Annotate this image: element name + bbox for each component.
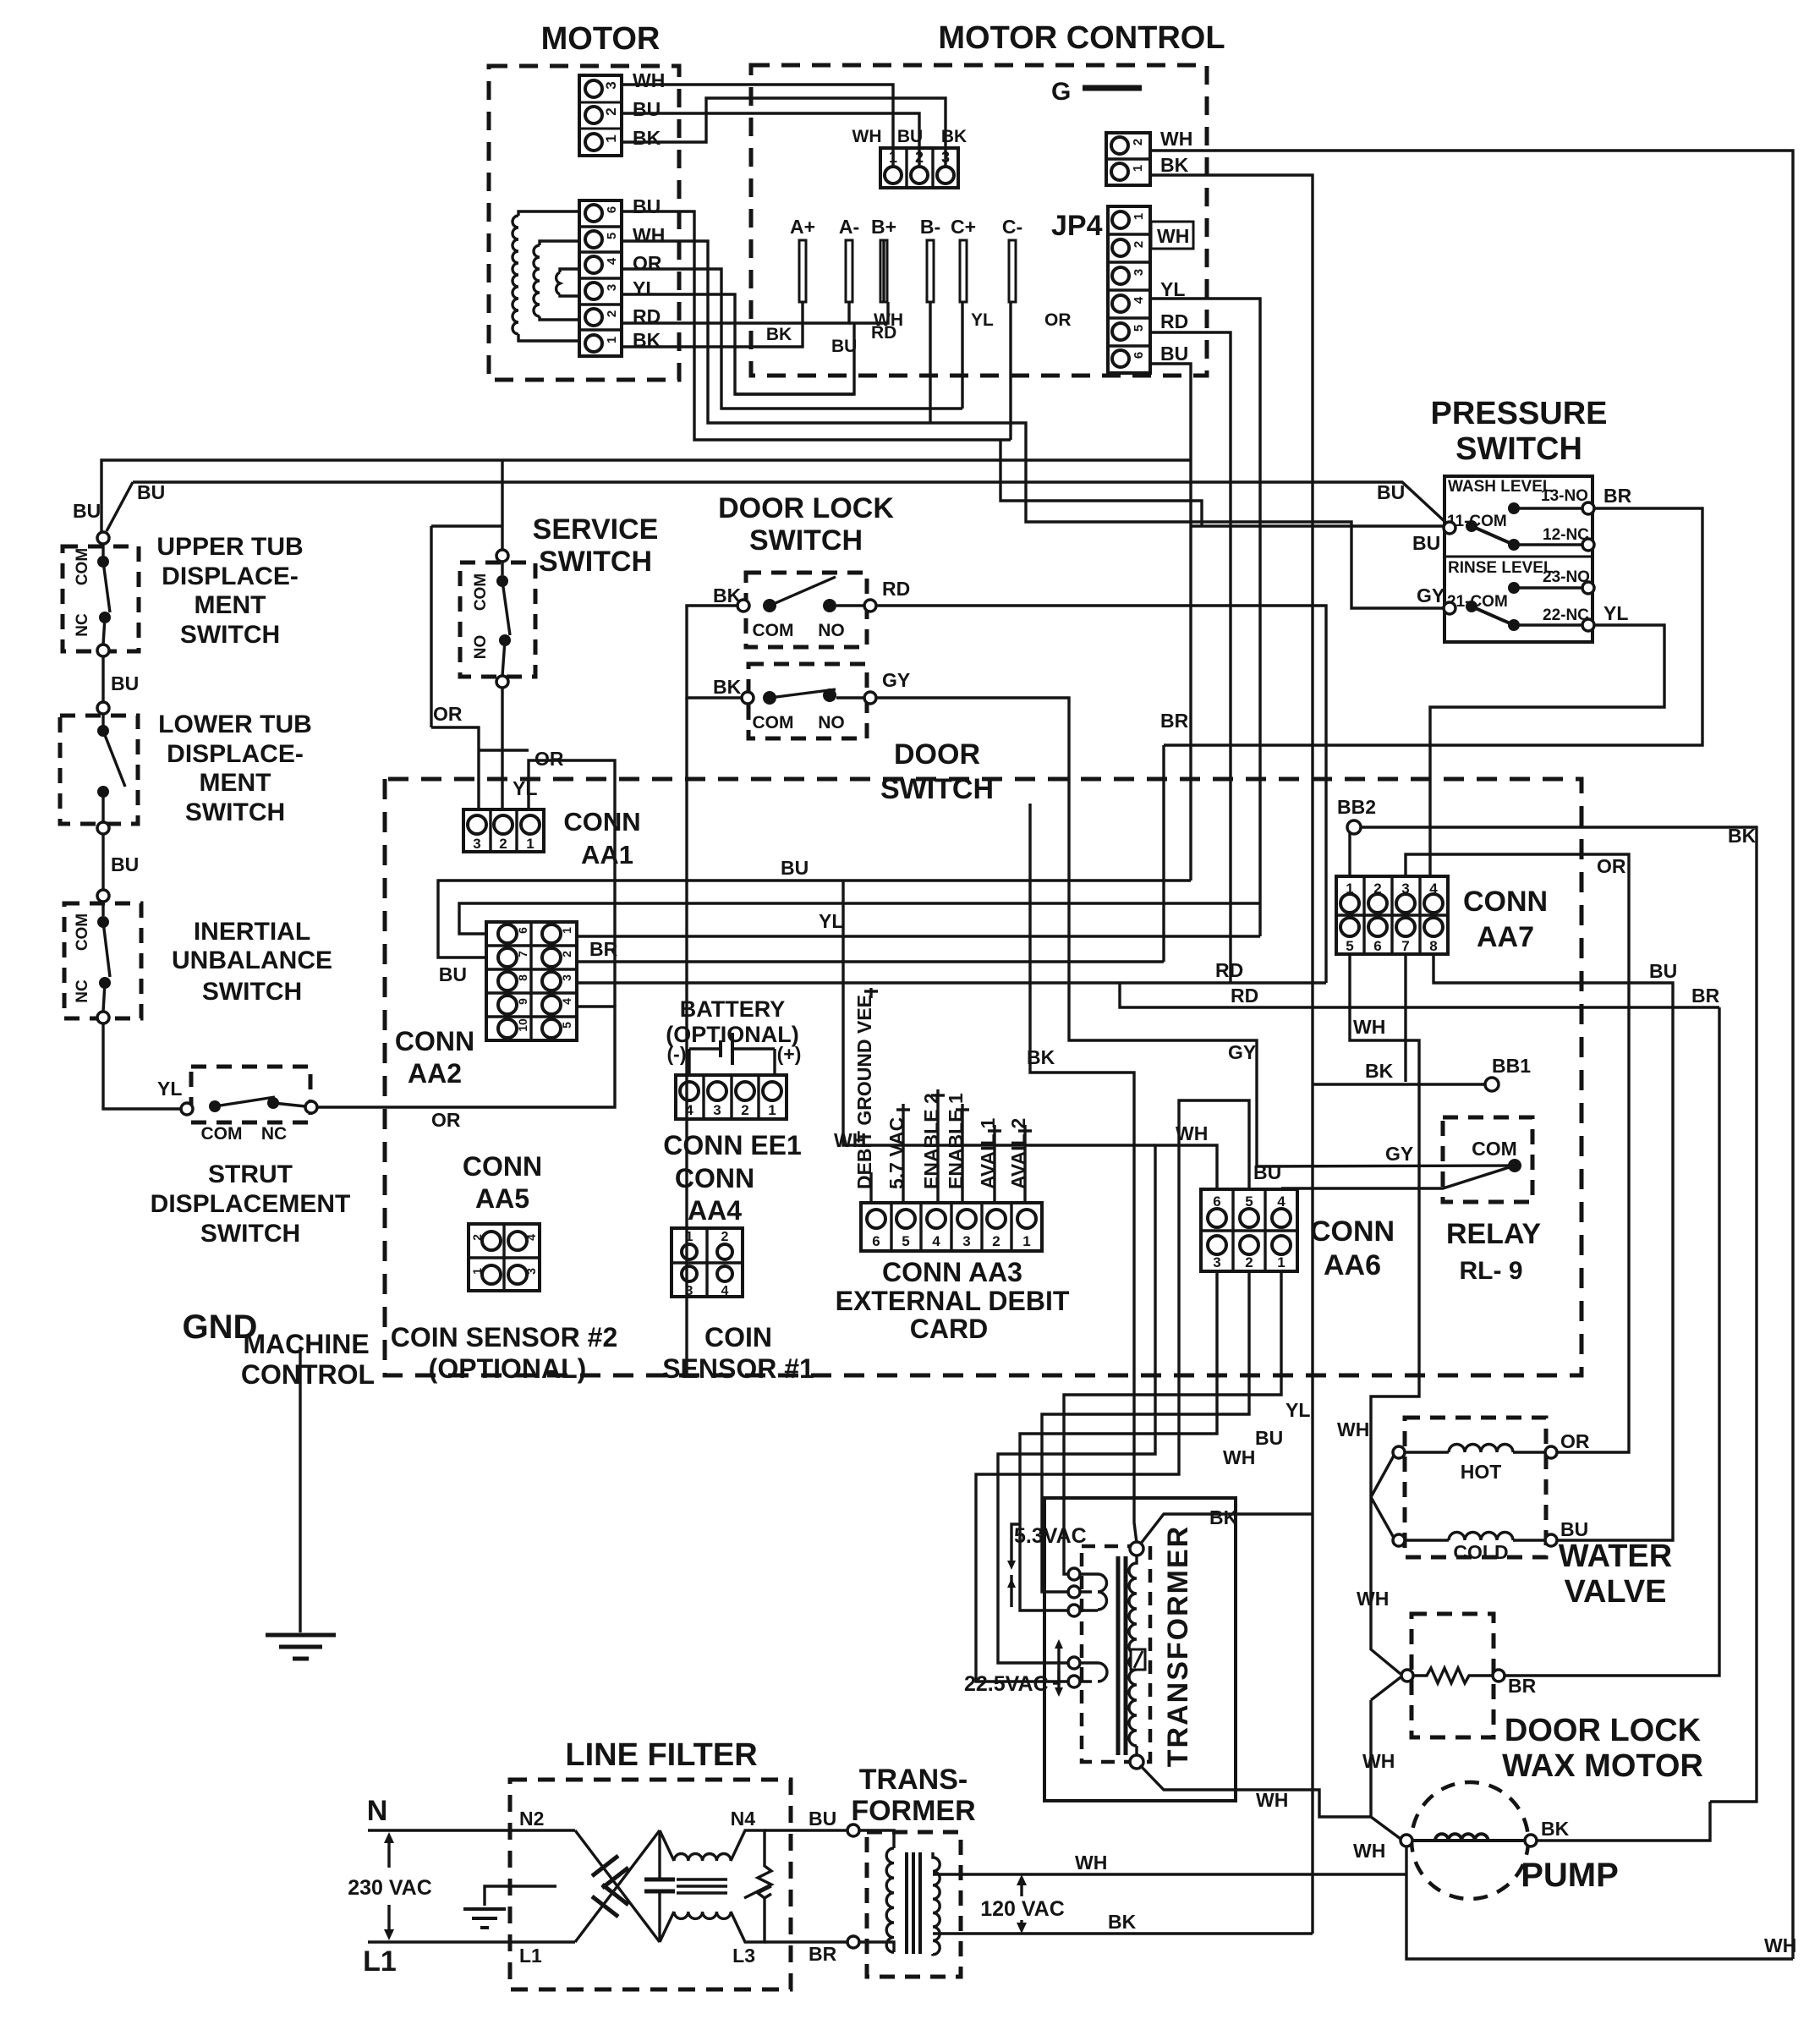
svg-text:(-): (-) — [667, 1043, 687, 1065]
svg-text:WH: WH — [633, 69, 665, 91]
svg-text:DEBIT GROUND VEE: DEBIT GROUND VEE — [853, 995, 875, 1189]
svg-text:WH: WH — [852, 127, 882, 146]
svg-text:OR: OR — [1560, 1430, 1590, 1452]
svg-text:BU: BU — [73, 500, 101, 522]
svg-text:JP4: JP4 — [1051, 210, 1103, 242]
svg-text:OR: OR — [431, 1109, 461, 1131]
filter core lines — [677, 1878, 727, 1880]
svg-text:UPPER TUB: UPPER TUB — [156, 533, 303, 561]
rinse 21-COM contact blade — [1444, 602, 1455, 614]
svg-text:1: 1 — [526, 836, 534, 852]
svg-text:AA6: AA6 — [1324, 1249, 1381, 1281]
svg-text:BU: BU — [831, 337, 857, 356]
svg-text:CONN EE1: CONN EE1 — [663, 1130, 802, 1160]
svg-text:WH: WH — [1157, 225, 1189, 247]
svg-text:CONN: CONN — [395, 1026, 474, 1056]
svg-text:1: 1 — [605, 337, 619, 343]
svg-text:6: 6 — [1132, 352, 1146, 359]
svg-text:SERVICE: SERVICE — [533, 513, 659, 546]
svg-text:GY: GY — [1385, 1143, 1413, 1165]
wire BR from 13-NO — [1164, 508, 1702, 745]
svg-text:1: 1 — [1022, 1233, 1030, 1249]
door switch box — [748, 664, 867, 738]
svg-text:3: 3 — [1132, 269, 1146, 276]
wire BU second from node to pressure — [133, 482, 1448, 524]
svg-text:5: 5 — [560, 1022, 573, 1029]
water valve cold coil — [1393, 1534, 1405, 1546]
wire BK between door switches — [687, 606, 742, 698]
filter resistor — [744, 1830, 771, 1942]
svg-text:RINSE LEVEL: RINSE LEVEL — [1448, 559, 1554, 577]
svg-text:2: 2 — [721, 1230, 729, 1244]
svg-text:SWITCH: SWITCH — [200, 1220, 300, 1248]
svg-text:2: 2 — [741, 1102, 748, 1118]
svg-text:2: 2 — [499, 836, 507, 852]
svg-text:C+: C+ — [951, 216, 976, 238]
filter output BU — [765, 1829, 847, 1831]
svg-text:BU: BU — [111, 853, 139, 875]
svg-text:G: G — [1051, 78, 1071, 106]
svg-text:N: N — [367, 1795, 388, 1827]
wire OR into AA1 pin3 — [431, 727, 479, 809]
filter inductor bottom — [660, 1912, 755, 1942]
svg-text:WH: WH — [1223, 1446, 1255, 1468]
svg-text:WH: WH — [1357, 1588, 1389, 1610]
svg-text:MENT: MENT — [195, 591, 266, 619]
door lock switch contacts — [737, 600, 749, 612]
svg-text:DOOR LOCK: DOOR LOCK — [1505, 1713, 1702, 1748]
relay RL-9 box — [1443, 1117, 1532, 1202]
wire RD to bar A- — [622, 302, 849, 323]
transformer bottom WH exit — [1140, 1765, 1371, 1817]
wire BK from transformer top riser — [1140, 1514, 1313, 1544]
svg-text:UNBALANCE: UNBALANCE — [172, 946, 332, 974]
machine control dashed enclosure — [385, 779, 1582, 1375]
inertial switch contacts — [101, 902, 104, 916]
svg-text:1: 1 — [560, 927, 573, 934]
filter ground stub — [485, 1886, 556, 1906]
phase bar B- — [927, 240, 934, 302]
svg-text:4: 4 — [1132, 296, 1146, 304]
wire BU AA6 pin2 to transformer — [1042, 1271, 1249, 1592]
line filter dashed box — [510, 1780, 791, 1989]
wire BU between switches 2 — [101, 834, 104, 890]
filter inductor top — [660, 1830, 755, 1861]
wire RD branch to AA7 pin6 — [1120, 983, 1719, 1007]
transformer fuse element — [1131, 1649, 1145, 1670]
inertial unbalance switch box — [64, 903, 141, 1018]
svg-text:CONTROL: CONTROL — [241, 1359, 375, 1390]
svg-text:BU: BU — [1255, 1427, 1283, 1449]
svg-text:AA1: AA1 — [581, 840, 633, 870]
svg-text:6: 6 — [516, 927, 529, 934]
svg-text:SENSOR #1: SENSOR #1 — [662, 1353, 814, 1384]
svg-text:8: 8 — [516, 974, 529, 981]
svg-text:BU: BU — [781, 857, 809, 879]
control transformer dashed core box — [1082, 1546, 1150, 1762]
svg-text:BATTERY: BATTERY — [680, 996, 786, 1022]
svg-text:WASH LEVEL: WASH LEVEL — [1448, 478, 1553, 496]
svg-text:YL: YL — [633, 277, 657, 299]
svg-text:1: 1 — [1131, 165, 1145, 172]
connector AA7 — [1336, 876, 1448, 954]
svg-text:BK: BK — [1728, 825, 1757, 847]
wash 13-NO contact — [1508, 502, 1520, 514]
mains transformer windings — [859, 1830, 894, 1848]
svg-text:AA5: AA5 — [475, 1183, 529, 1214]
svg-text:N2: N2 — [519, 1808, 544, 1830]
svg-text:8: 8 — [1429, 938, 1437, 954]
svg-text:WH: WH — [1160, 128, 1192, 150]
wire WH AA6 pin3 to transformer — [1020, 1271, 1217, 1610]
svg-text:RD: RD — [1215, 959, 1243, 981]
wire BU branch to left switches — [101, 460, 1191, 533]
wire BU motor pin6 staircase to 11-COM stub — [622, 211, 1011, 440]
svg-text:WH: WH — [874, 310, 903, 330]
ground symbol — [299, 1347, 301, 1632]
filter center capacitor — [658, 1830, 661, 1879]
wire GY door switch to relay — [876, 698, 1512, 1166]
svg-text:2: 2 — [1132, 241, 1146, 248]
svg-text:BK: BK — [1027, 1046, 1055, 1068]
water valve dashed box — [1405, 1418, 1546, 1557]
svg-text:BU: BU — [1377, 481, 1405, 503]
right edge BR wax riser — [1505, 1007, 1719, 1676]
svg-text:1: 1 — [470, 1268, 484, 1275]
svg-text:SWITCH: SWITCH — [180, 621, 280, 649]
wire YL loop into AA2 pin6 — [459, 903, 1260, 934]
svg-text:BU: BU — [1412, 532, 1440, 554]
svg-text:BB2: BB2 — [1337, 796, 1376, 818]
svg-text:BU: BU — [137, 481, 165, 503]
svg-text:2: 2 — [1131, 139, 1145, 145]
svg-text:OR: OR — [534, 748, 564, 770]
svg-text:COIN: COIN — [704, 1322, 772, 1352]
door switch contacts — [742, 692, 754, 704]
svg-text:OR: OR — [433, 703, 463, 725]
svg-text:6: 6 — [1373, 938, 1381, 954]
svg-text:1: 1 — [603, 134, 619, 142]
wire YL JP4 pin4 — [1150, 299, 1260, 936]
wire WH from bar B- down — [929, 302, 931, 423]
connector AA3 — [861, 1203, 1042, 1251]
filter output BR — [765, 1940, 847, 1943]
svg-text:CONN: CONN — [463, 1151, 542, 1182]
svg-text:BU: BU — [1649, 960, 1677, 982]
wire YL from 22-NC to AA7 pin4 — [1430, 625, 1664, 876]
svg-text:1: 1 — [768, 1102, 776, 1118]
pressure switch box — [1444, 476, 1592, 642]
svg-text:3: 3 — [473, 836, 480, 852]
svg-text:BR: BR — [809, 1943, 837, 1965]
connector AA2 — [486, 922, 577, 1040]
svg-text:BU: BU — [439, 963, 467, 985]
svg-text:GY: GY — [882, 669, 910, 691]
WH bus down to wax motor — [1371, 1497, 1401, 1674]
svg-text:10: 10 — [516, 1018, 529, 1032]
svg-text:HOT: HOT — [1461, 1461, 1502, 1483]
svg-text:BU: BU — [111, 672, 139, 694]
rinse 23-NO contact — [1508, 582, 1520, 594]
wire BK staircase to transformer top — [1030, 804, 1137, 1543]
svg-text:BK: BK — [1160, 154, 1189, 176]
svg-text:COM: COM — [753, 713, 794, 732]
wire BU JP4 pin6 — [1150, 364, 1191, 881]
svg-text:(OPTIONAL): (OPTIONAL) — [429, 1353, 587, 1384]
svg-text:5: 5 — [902, 1233, 909, 1249]
svg-text:YL: YL — [971, 310, 994, 330]
wire WH AA7 pin5 staircase down — [1350, 954, 1419, 1429]
svg-text:SWITCH: SWITCH — [1455, 431, 1582, 467]
svg-text:OR: OR — [633, 252, 662, 274]
svg-text:BU: BU — [633, 195, 661, 217]
wire YL from bar C+ down — [961, 302, 963, 409]
svg-text:YL: YL — [1286, 1399, 1310, 1421]
wire BU riser to RD line — [735, 323, 854, 394]
connector AA6 — [1201, 1189, 1297, 1271]
wire service branch left — [431, 524, 502, 527]
connector AA1 — [463, 809, 544, 852]
svg-text:COM: COM — [201, 1124, 243, 1144]
svg-text:5: 5 — [1132, 325, 1146, 332]
svg-text:13-NO: 13-NO — [1541, 487, 1588, 505]
transformer secondary taps — [1068, 1568, 1080, 1580]
svg-text:4: 4 — [560, 998, 573, 1005]
svg-text:BR: BR — [589, 938, 618, 960]
svg-text:BU: BU — [1160, 343, 1188, 365]
svg-text:AA7: AA7 — [1477, 921, 1534, 953]
svg-text:SWITCH: SWITCH — [539, 546, 652, 578]
phase bar C- — [1009, 240, 1016, 302]
wire OR strut riser to AA1 pin1 — [529, 760, 615, 1007]
svg-text:NO: NO — [818, 713, 845, 732]
svg-text:PUMP: PUMP — [1521, 1857, 1619, 1894]
svg-text:LOWER TUB: LOWER TUB — [158, 710, 312, 738]
svg-text:4: 4 — [721, 1284, 729, 1298]
svg-text:B+: B+ — [871, 216, 896, 238]
svg-text:CONN: CONN — [675, 1163, 754, 1193]
motor top terminal strip — [579, 75, 622, 156]
svg-text:6: 6 — [605, 206, 619, 213]
svg-text:230 VAC: 230 VAC — [348, 1876, 432, 1900]
motor control dashed enclosure — [751, 65, 1207, 376]
svg-text:2: 2 — [1245, 1254, 1253, 1270]
svg-text:4: 4 — [605, 257, 619, 265]
svg-text:BK: BK — [1108, 1911, 1137, 1933]
svg-text:BK: BK — [1541, 1818, 1570, 1840]
svg-text:WAX MOTOR: WAX MOTOR — [1502, 1748, 1703, 1784]
wire OR AA7 pin3 to water valve — [1406, 854, 1629, 1452]
transformer top terminal — [1130, 1542, 1143, 1555]
svg-text:BU: BU — [633, 98, 661, 120]
svg-text:YL: YL — [157, 1078, 182, 1100]
svg-text:COLD: COLD — [1453, 1541, 1508, 1563]
svg-text:L3: L3 — [732, 1945, 755, 1967]
svg-text:WH: WH — [1362, 1750, 1395, 1772]
svg-text:COM: COM — [74, 913, 91, 951]
svg-text:6: 6 — [872, 1233, 880, 1249]
svg-text:COIN SENSOR #2: COIN SENSOR #2 — [391, 1322, 618, 1352]
control transformer outer box — [1044, 1498, 1236, 1801]
svg-text:3: 3 — [713, 1102, 721, 1118]
svg-text:RL- 9: RL- 9 — [1460, 1257, 1523, 1285]
svg-text:NC: NC — [74, 613, 91, 637]
motor winding inner coil — [556, 269, 579, 296]
connector EE1 — [676, 1075, 787, 1119]
wire OR from bar C- down — [1009, 302, 1011, 440]
motor winding middle coil — [534, 241, 579, 320]
motor dashed enclosure — [489, 66, 679, 380]
svg-text:RELAY: RELAY — [1446, 1218, 1541, 1250]
svg-text:120 VAC: 120 VAC — [980, 1897, 1065, 1921]
wax motor resistor — [1401, 1670, 1413, 1682]
svg-text:MOTOR: MOTOR — [541, 21, 661, 57]
svg-text:DISPLACEMENT: DISPLACEMENT — [151, 1190, 351, 1218]
wire WH motor pin3 to control pin1 — [622, 85, 893, 167]
svg-text:COM: COM — [74, 548, 91, 585]
svg-text:2: 2 — [603, 107, 619, 115]
svg-text:22-NC: 22-NC — [1543, 606, 1589, 624]
wire BU loop into AA2 pin7 — [438, 881, 1191, 957]
svg-text:COM: COM — [1472, 1138, 1517, 1160]
svg-text:CARD: CARD — [910, 1314, 988, 1344]
wire down to strut switch — [103, 1023, 181, 1109]
svg-text:WATER: WATER — [1559, 1539, 1672, 1574]
wire BU motor pin2 to control pin2 — [622, 113, 919, 167]
node circle top of switch chain — [97, 532, 109, 544]
JP4 WH boxed label — [1151, 222, 1193, 249]
motor control terminal block 1 2 3 — [880, 148, 958, 188]
svg-text:EXTERNAL DEBIT: EXTERNAL DEBIT — [836, 1286, 1070, 1316]
svg-text:WH: WH — [1176, 1122, 1208, 1144]
svg-text:VALVE: VALVE — [1564, 1574, 1666, 1610]
svg-text:DISPLACE-: DISPLACE- — [167, 740, 304, 768]
transformer secondary winding — [1080, 1574, 1107, 1682]
svg-text:MENT: MENT — [200, 769, 271, 797]
svg-text:1: 1 — [1277, 1254, 1285, 1270]
svg-text:L1: L1 — [363, 1945, 397, 1978]
svg-text:(+): (+) — [777, 1043, 802, 1065]
svg-text:22.5VAC: 22.5VAC — [964, 1672, 1049, 1696]
svg-text:C-: C- — [1002, 216, 1022, 238]
phase bar A+ — [799, 240, 806, 302]
svg-text:5.3VAC: 5.3VAC — [1014, 1524, 1087, 1548]
mains transformer WH output — [933, 1873, 1406, 1875]
wire YL AA6 pin1 to transformer — [1064, 1271, 1281, 1574]
svg-text:2: 2 — [992, 1233, 1000, 1249]
svg-text:NC: NC — [261, 1124, 287, 1144]
AA3 pin stubs — [869, 988, 872, 998]
wire BK down from door switch — [685, 698, 688, 1375]
svg-text:TRANSFORMER: TRANSFORMER — [1162, 1525, 1194, 1767]
wire BU into AA6 pin5 — [976, 1100, 1249, 1682]
svg-text:BK: BK — [1209, 1506, 1238, 1528]
120 VAC arrow — [1020, 1879, 1022, 1896]
svg-text:5: 5 — [605, 233, 619, 239]
wire YL motor pin3 staircase to service switch — [622, 294, 854, 394]
N wire — [368, 1829, 575, 1831]
svg-text:3: 3 — [603, 81, 619, 89]
svg-text:BR: BR — [1160, 710, 1189, 732]
wire BU branch to pressure 11-COM — [1191, 524, 1443, 527]
svg-text:LINE FILTER: LINE FILTER — [565, 1737, 757, 1773]
wire WH west stub — [843, 881, 1155, 1145]
svg-text:3: 3 — [686, 1284, 693, 1298]
svg-text:WH: WH — [1764, 1934, 1796, 1956]
svg-text:BK: BK — [766, 325, 792, 344]
svg-text:7: 7 — [1401, 938, 1409, 954]
svg-text:N4: N4 — [731, 1808, 756, 1830]
lower tub switch contacts — [101, 714, 104, 726]
svg-text:CONN: CONN — [563, 807, 640, 837]
control board top connector 2 1 — [1106, 133, 1150, 185]
wire RD to bar B+ — [849, 302, 888, 323]
wire WH motor pin5 staircase to 21-COM — [622, 241, 1443, 608]
svg-text:WH: WH — [1353, 1840, 1385, 1862]
wire BR AA2 riser — [1162, 745, 1165, 962]
upper tub switch contacts — [101, 544, 104, 557]
L1 wire — [368, 1940, 575, 1943]
wire BK pump to BB2 riser — [1537, 1802, 1710, 1841]
WH bus valve taps — [1369, 1429, 1372, 1497]
svg-text:AA4: AA4 — [688, 1195, 742, 1226]
svg-text:INERTIAL: INERTIAL — [194, 918, 310, 946]
wire YL service to AA1 pin2 — [501, 688, 503, 809]
svg-text:A+: A+ — [790, 216, 815, 238]
svg-text:SWITCH: SWITCH — [749, 524, 863, 557]
svg-text:WH: WH — [633, 224, 665, 246]
svg-text:RD: RD — [1231, 985, 1258, 1007]
svg-text:DOOR LOCK: DOOR LOCK — [718, 492, 894, 524]
transformer bottom terminal — [1130, 1755, 1143, 1769]
wire OR strut to AA2 pin4 — [317, 1007, 615, 1107]
svg-text:BU: BU — [1253, 1161, 1281, 1183]
wash 11-COM contact blade — [1444, 522, 1455, 534]
svg-text:SWITCH: SWITCH — [185, 798, 285, 826]
svg-text:1: 1 — [686, 1230, 693, 1244]
svg-text:B-: B- — [920, 216, 940, 238]
svg-text:BK: BK — [713, 584, 742, 606]
door lock wax motor box — [1412, 1614, 1494, 1737]
wire RD JP4 pin5 — [1150, 332, 1231, 983]
svg-text:BK: BK — [1365, 1060, 1394, 1082]
node diagonal — [107, 482, 133, 531]
svg-text:DISPLACE-: DISPLACE- — [162, 562, 299, 590]
service switch box — [460, 562, 535, 677]
svg-text:2: 2 — [560, 951, 573, 957]
svg-text:BU: BU — [1560, 1518, 1588, 1540]
svg-text:RD: RD — [882, 578, 910, 600]
wire BU between switches — [101, 656, 104, 702]
svg-text:4: 4 — [932, 1233, 940, 1249]
svg-text:BR: BR — [1508, 1675, 1537, 1697]
svg-text:SWITCH: SWITCH — [202, 978, 302, 1006]
svg-text:7: 7 — [516, 951, 529, 957]
svg-text:2: 2 — [605, 310, 619, 317]
svg-text:BU: BU — [809, 1808, 836, 1830]
upper tub displacement switch box — [63, 546, 139, 651]
svg-text:WH: WH — [1075, 1852, 1107, 1874]
phase bar A- — [846, 240, 852, 302]
svg-text:YL: YL — [1160, 278, 1185, 300]
wire RD AA2 pin3 — [577, 981, 1326, 984]
svg-text:COM: COM — [753, 621, 794, 640]
wire RD door lock to right — [876, 606, 1326, 983]
wire service feed from BU line — [501, 460, 503, 550]
svg-text:WH: WH — [1353, 1016, 1385, 1038]
svg-text:4: 4 — [685, 1102, 693, 1118]
motor bottom terminal strip — [579, 200, 622, 356]
